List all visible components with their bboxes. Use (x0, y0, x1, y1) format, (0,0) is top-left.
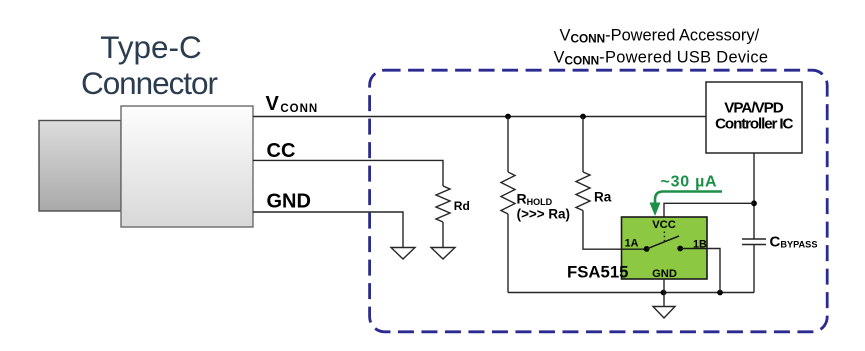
svg-text:Connector: Connector (81, 65, 218, 101)
wire 1B stub inside (680, 248, 707, 250)
wire controller to capacitor (753, 153, 755, 239)
svg-text:(>>> Ra): (>>> Ra) (517, 205, 570, 221)
ground (Rd) (431, 248, 455, 260)
node VCONN/Ra junction (580, 114, 586, 120)
switch dotted control line (663, 232, 665, 242)
wire RHOLD bottom (507, 214, 509, 293)
svg-text:~30 µA: ~30 µA (661, 173, 718, 190)
connector plug barrel (39, 121, 121, 212)
wire Rd bottom (442, 222, 444, 248)
wire Ra bottom to 1A (583, 211, 647, 250)
switch throw 1B (677, 246, 683, 252)
node VCONN/RHOLD junction (505, 114, 511, 120)
capacitor CBYPASS (742, 239, 766, 245)
node GND pin junction (661, 290, 667, 296)
wire VCONN (253, 116, 706, 118)
svg-text:Controller IC: Controller IC (715, 115, 793, 132)
svg-text:Ra: Ra (594, 190, 612, 205)
current arrow head (650, 203, 661, 217)
switch pole 1A (644, 246, 650, 252)
svg-text:FSA515: FSA515 (567, 262, 628, 281)
svg-text:CC: CC (267, 140, 296, 162)
wire GND (253, 212, 403, 248)
svg-text:GND: GND (652, 268, 677, 280)
wire capacitor bottom (753, 245, 755, 293)
ground (GND wire) (391, 248, 415, 260)
resistor RHOLD (501, 172, 515, 214)
svg-text:VCC: VCC (652, 219, 676, 231)
node VCC tee (751, 200, 757, 206)
dashed enclosure (VCONN-powered device) (370, 70, 828, 332)
svg-text:VPA/VPD: VPA/VPD (724, 99, 784, 116)
current arrow stem (655, 192, 722, 204)
node 1B junction (717, 290, 723, 296)
wire CC (253, 160, 443, 186)
wire 1A stub inside (622, 248, 647, 250)
resistor Rd (436, 186, 450, 222)
svg-text:1A: 1A (625, 237, 639, 249)
ground (FSA515 GND) (653, 307, 675, 319)
VPA/VPD controller IC box (706, 82, 802, 153)
label Type-C Connector title (81, 29, 218, 101)
wire VCC to tee (664, 203, 754, 216)
resistor Ra (576, 172, 590, 211)
wire 1B out (707, 249, 720, 293)
svg-text:Rd: Rd (454, 199, 470, 213)
wire Ra top (582, 117, 584, 173)
switch U1 FSA515 body (622, 217, 708, 279)
wire bottom ground rail (508, 292, 754, 294)
connector body (121, 106, 253, 227)
wire RHOLD top (507, 117, 509, 173)
svg-text:GND: GND (267, 191, 311, 213)
svg-text:1B: 1B (693, 238, 707, 250)
wire GND pin down (663, 279, 665, 307)
switch arm (647, 236, 679, 249)
svg-text:Type-C: Type-C (100, 29, 202, 65)
